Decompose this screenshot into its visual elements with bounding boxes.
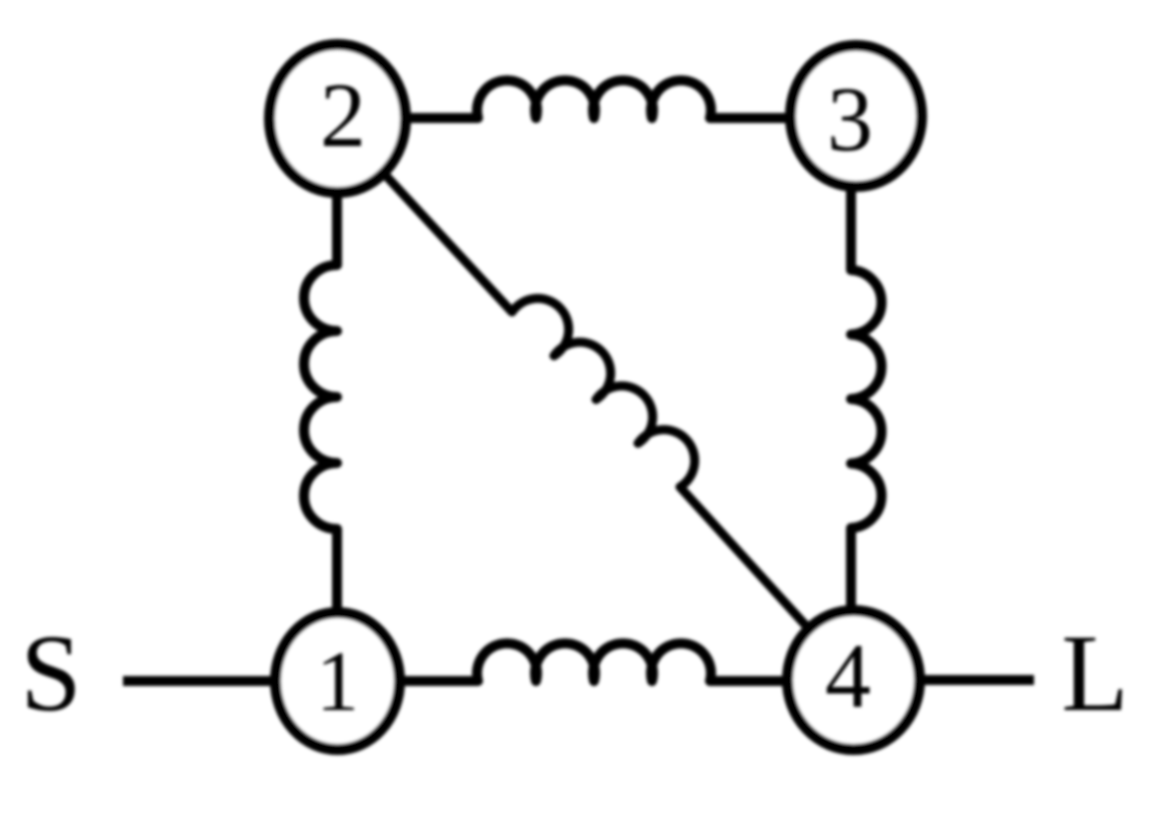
- inductor L34 (right link node3-node4): [851, 185, 882, 612]
- inductor L23 (top link node2-node3): [408, 80, 790, 118]
- svg-text:1: 1: [316, 633, 359, 729]
- inductor L14 (bottom link node1-node4): [398, 643, 788, 681]
- inductor L24 (diagonal link node2-node4): [384, 173, 809, 629]
- node 4 circle: [788, 611, 920, 750]
- wire node 4 to L lead: [918, 675, 1034, 685]
- svg-text:S: S: [20, 612, 81, 734]
- node 3 circle: [791, 46, 922, 187]
- node 2 circle: [270, 45, 406, 193]
- inductor L12 (left link node2-node1): [304, 190, 337, 614]
- svg-text:3: 3: [827, 68, 873, 170]
- svg-text:L: L: [1061, 612, 1128, 734]
- svg-text:4: 4: [825, 625, 871, 727]
- node 1 circle: [276, 613, 400, 750]
- svg-text:2: 2: [320, 64, 366, 166]
- wire S lead to node 1: [123, 676, 276, 686]
